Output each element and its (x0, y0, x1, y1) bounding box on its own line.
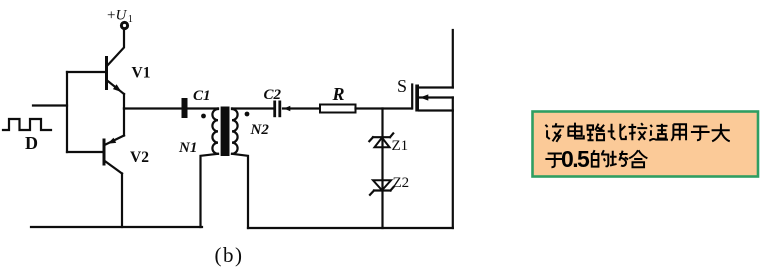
svg-text:Z2: Z2 (393, 175, 410, 191)
transformer winding N2 (232, 109, 238, 154)
wire source down (452, 98, 454, 229)
wire base bus vertical (66, 72, 68, 152)
char 用 (671, 124, 686, 141)
resistor R (320, 105, 356, 113)
char 该 (545, 123, 564, 142)
svg-text:V2: V2 (130, 149, 149, 166)
svg-text:C1: C1 (193, 88, 211, 104)
svg-text:+U1: +U1 (107, 8, 133, 26)
polarity dot N1 (201, 114, 206, 119)
svg-text:(b): (b) (215, 243, 244, 267)
svg-text:N1: N1 (178, 140, 197, 156)
wire bottom-right rail (248, 227, 453, 229)
svg-text:D: D (25, 133, 38, 153)
MOSFET S channel bar (415, 85, 419, 112)
wire C1 to N1 (188, 107, 219, 109)
MOSFET S drain stub (419, 86, 453, 88)
wire bottom-left rail (31, 226, 202, 228)
transformer winding N1 (212, 109, 218, 154)
char 合 (629, 150, 647, 167)
char 电 (568, 123, 583, 139)
wire V1 emitter to node (123, 94, 125, 109)
wire C2 to R with arrow (283, 106, 320, 111)
char 较 (629, 123, 648, 140)
MOSFET S gate bar (411, 85, 413, 109)
transformer core (221, 107, 230, 157)
MOSFET S body stub with arrow (419, 94, 453, 100)
wire drain up (452, 30, 454, 88)
zener Z1 (369, 133, 393, 147)
annotation box (533, 112, 759, 177)
wire N1 bottom leg (201, 154, 219, 227)
MOSFET S source stub (419, 109, 453, 111)
zener Z2 (370, 180, 394, 195)
char 路 (587, 124, 605, 141)
annotation text line2: 于0.5的场合 (545, 146, 647, 172)
wire V1 base (67, 71, 105, 73)
char 的 (592, 150, 609, 167)
char 适 (649, 124, 668, 141)
transistor V2 (104, 109, 124, 174)
char 场 (610, 151, 628, 166)
svg-text:C2: C2 (264, 87, 282, 103)
wire V2 base (67, 151, 103, 153)
wire N2 bottom leg (232, 154, 248, 228)
polarity dot N2 (245, 112, 250, 117)
char 大 (712, 124, 730, 142)
svg-text:R: R (332, 84, 345, 104)
annotation text line1: 该电路比较适用于大 (545, 123, 729, 142)
node junction zener branch (381, 109, 383, 229)
wire R to gate (356, 107, 412, 109)
svg-text:N2: N2 (250, 122, 270, 138)
char 比 (608, 124, 626, 140)
square-wave input symbol (3, 119, 51, 130)
wire V2 collector down (121, 174, 123, 228)
wire N2 top to C2 (232, 107, 273, 109)
svg-text:Z1: Z1 (392, 138, 409, 154)
wire input to bases (33, 104, 67, 106)
char 于 (691, 126, 710, 140)
char 于 (line2) (545, 153, 564, 167)
svg-text:V1: V1 (132, 65, 151, 82)
wire output node horizontal (124, 107, 182, 109)
terminal +U1 (121, 22, 127, 28)
capacitor C1 (182, 98, 188, 118)
transistor V1 (107, 30, 125, 95)
svg-text:S: S (397, 76, 407, 96)
svg-text:0.5: 0.5 (561, 146, 590, 172)
capacitor C2 (273, 101, 281, 118)
